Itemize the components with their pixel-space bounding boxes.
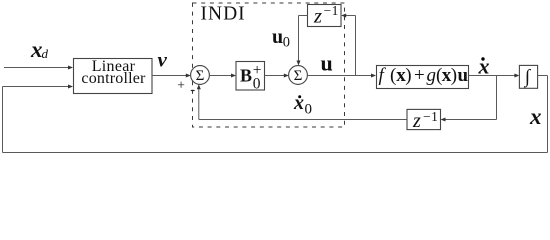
svg-text:u: u: [272, 26, 283, 48]
block: delay Z1 (top z^-1): [308, 3, 342, 27]
svg-text:INDI: INDI: [201, 3, 246, 24]
wire: integrator output to x with feedback loop to Linear controller: [3, 76, 548, 153]
svg-text:+: +: [177, 77, 185, 92]
node label xdot: [478, 54, 490, 79]
wire: u output of S2 to plant with junction tap: [307, 74, 376, 78]
svg-text:controller: controller: [81, 70, 146, 87]
svg-text:d: d: [42, 46, 49, 61]
summing junction S2: [289, 66, 308, 85]
svg-text:z: z: [313, 6, 322, 28]
label INDI: [201, 3, 246, 24]
node label xdot0: [293, 92, 312, 118]
summing junction S1: [191, 66, 210, 85]
wire: state feedback into Linear controller: [3, 85, 74, 89]
wire: delay Z2 output left and up into S1 bottom: [197, 84, 407, 119]
wire: B0 to summing junction S2: [265, 74, 289, 78]
svg-text:ν: ν: [158, 48, 168, 72]
svg-text:−1: −1: [324, 3, 339, 18]
wire: x_d input into Linear controller: [4, 66, 73, 70]
node label nu: [158, 48, 168, 72]
wire: plant output to integrator with junction tap: [469, 74, 520, 78]
wire: xdot tap down to delay Z2 input: [441, 76, 497, 122]
svg-text:−1: −1: [423, 109, 438, 124]
svg-text:f(x)+g(x)u: f(x)+g(x)u: [379, 65, 469, 86]
node label u: [321, 51, 333, 76]
sign plus at S1: [177, 77, 185, 92]
block: integrator: [519, 65, 537, 88]
wire: S1 to B0 block: [209, 74, 236, 78]
block B0+: [236, 62, 265, 93]
svg-text:B: B: [240, 66, 252, 86]
svg-text:x: x: [293, 92, 304, 114]
svg-text:x: x: [478, 54, 490, 79]
INDI dashed boundary box: [193, 3, 345, 127]
svg-text:x: x: [529, 104, 542, 129]
svg-text:Σ: Σ: [294, 68, 303, 84]
wire: delay Z1 output down into S2: [297, 16, 308, 66]
svg-text:0: 0: [283, 35, 290, 51]
svg-text:u: u: [321, 51, 333, 76]
svg-text:0: 0: [305, 102, 313, 118]
svg-text:z: z: [412, 110, 421, 132]
block: Linear controller: [74, 58, 153, 94]
node label u0: [272, 26, 290, 51]
block: plant f(x)+g(x)u: [377, 65, 469, 89]
svg-text:Σ: Σ: [196, 68, 205, 84]
block: delay Z2 (bottom z^-1): [407, 109, 441, 132]
sign minus at S1 bottom input: [191, 90, 195, 92]
svg-text:+: +: [253, 62, 262, 79]
wire: nu from Linear controller to summing junction S1: [152, 74, 191, 78]
wire: u tap up to delay Z1 input: [341, 14, 355, 76]
node label x output: [529, 104, 542, 129]
node label x_d: [30, 37, 49, 62]
